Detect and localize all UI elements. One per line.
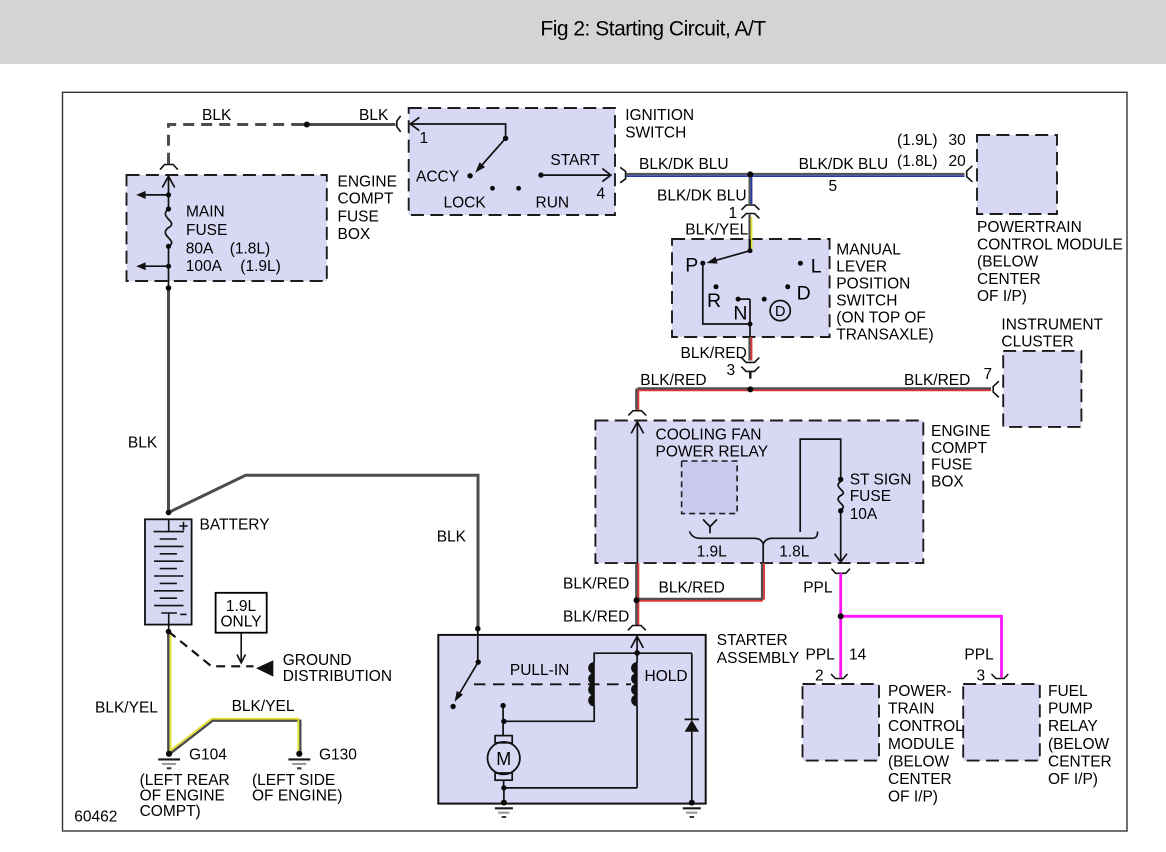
svg-text:100A: 100A <box>186 258 223 275</box>
svg-text:1: 1 <box>420 130 429 147</box>
svg-text:(BELOW: (BELOW <box>888 753 950 770</box>
svg-text:BLK/RED: BLK/RED <box>659 580 725 597</box>
svg-text:14: 14 <box>849 646 867 663</box>
svg-text:BLK/DK BLU: BLK/DK BLU <box>799 156 889 173</box>
svg-text:CENTER: CENTER <box>977 271 1041 288</box>
svg-text:ENGINE: ENGINE <box>338 173 397 190</box>
svg-text:CLUSTER: CLUSTER <box>1001 334 1073 351</box>
svg-text:Fig 2: Starting Circuit, A/T: Fig 2: Starting Circuit, A/T <box>540 18 766 41</box>
svg-text:PUMP: PUMP <box>1048 701 1093 718</box>
svg-text:BLK/RED: BLK/RED <box>640 372 706 389</box>
svg-text:ACCY: ACCY <box>416 168 459 185</box>
svg-text:HOLD: HOLD <box>645 668 688 685</box>
svg-text:D: D <box>797 283 811 305</box>
svg-text:ENGINE: ENGINE <box>931 423 990 440</box>
svg-text:(BELOW: (BELOW <box>1048 736 1110 753</box>
svg-text:BLK/YEL: BLK/YEL <box>685 222 748 239</box>
svg-text:3: 3 <box>727 362 736 379</box>
svg-text:ST SIGN: ST SIGN <box>850 472 912 489</box>
svg-text:RELAY: RELAY <box>1048 718 1098 735</box>
svg-text:BOX: BOX <box>931 473 964 490</box>
svg-text:BOX: BOX <box>338 226 371 243</box>
svg-text:POWER RELAY: POWER RELAY <box>656 443 769 460</box>
svg-text:30: 30 <box>949 132 967 149</box>
svg-text:BLK: BLK <box>202 107 232 124</box>
svg-text:FUSE: FUSE <box>931 457 972 474</box>
svg-text:(1.9L): (1.9L) <box>240 258 280 275</box>
svg-text:(1.8L): (1.8L) <box>897 153 938 170</box>
svg-text:(1.8L): (1.8L) <box>230 241 271 258</box>
svg-text:COMPT: COMPT <box>338 191 395 208</box>
svg-text:PPL: PPL <box>803 580 833 597</box>
svg-text:LEVER: LEVER <box>836 259 887 276</box>
svg-text:DISTRIBUTION: DISTRIBUTION <box>283 668 392 685</box>
svg-text:OF I/P): OF I/P) <box>888 789 938 806</box>
svg-text:BLK: BLK <box>437 529 467 546</box>
svg-text:SWITCH: SWITCH <box>625 124 686 141</box>
svg-text:CENTER: CENTER <box>1048 753 1112 770</box>
svg-text:(BELOW: (BELOW <box>977 254 1039 271</box>
svg-text:20: 20 <box>949 153 967 170</box>
svg-text:BLK/YEL: BLK/YEL <box>232 698 295 715</box>
svg-text:BLK/RED: BLK/RED <box>904 372 970 389</box>
svg-text:MODULE: MODULE <box>888 736 954 753</box>
svg-text:FUSE: FUSE <box>850 488 891 505</box>
svg-text:10A: 10A <box>850 506 878 523</box>
svg-text:BLK/DK BLU: BLK/DK BLU <box>639 156 729 173</box>
svg-text:R: R <box>707 290 721 312</box>
svg-text:N: N <box>733 302 747 324</box>
svg-text:2: 2 <box>815 667 824 684</box>
svg-text:IGNITION: IGNITION <box>625 107 694 124</box>
svg-text:BLK: BLK <box>359 107 389 124</box>
svg-text:BATTERY: BATTERY <box>200 517 270 534</box>
svg-text:TRANSAXLE): TRANSAXLE) <box>836 327 933 344</box>
svg-text:3: 3 <box>977 667 986 684</box>
svg-text:PPL: PPL <box>806 646 836 663</box>
svg-text:P: P <box>685 254 698 276</box>
svg-text:LOCK: LOCK <box>444 194 487 211</box>
svg-text:1.9L: 1.9L <box>226 598 257 615</box>
svg-text:MANUAL: MANUAL <box>836 242 901 259</box>
svg-text:BLK/RED: BLK/RED <box>563 609 629 626</box>
svg-text:STARTER: STARTER <box>717 632 788 649</box>
svg-text:ONLY: ONLY <box>220 613 261 630</box>
svg-text:BLK/RED: BLK/RED <box>563 575 629 592</box>
svg-text:OF ENGINE: OF ENGINE <box>140 787 225 804</box>
svg-text:BLK/YEL: BLK/YEL <box>95 700 158 717</box>
svg-text:5: 5 <box>829 178 838 195</box>
svg-text:G130: G130 <box>319 747 357 764</box>
svg-text:FUSE: FUSE <box>338 208 379 225</box>
svg-text:OF I/P): OF I/P) <box>977 288 1027 305</box>
svg-text:RUN: RUN <box>536 194 570 211</box>
svg-text:80A: 80A <box>186 241 214 258</box>
svg-text:D: D <box>775 304 785 320</box>
svg-text:START: START <box>550 152 600 169</box>
svg-text:7: 7 <box>984 366 993 383</box>
svg-text:L: L <box>811 255 822 277</box>
svg-text:INSTRUMENT: INSTRUMENT <box>1001 317 1103 334</box>
svg-text:ASSEMBLY: ASSEMBLY <box>717 650 799 667</box>
svg-text:M: M <box>496 749 511 769</box>
svg-text:OF I/P): OF I/P) <box>1048 771 1098 788</box>
svg-text:SWITCH: SWITCH <box>836 293 897 310</box>
svg-text:G104: G104 <box>189 747 227 764</box>
svg-text:60462: 60462 <box>74 808 117 825</box>
svg-text:BLK/DK BLU: BLK/DK BLU <box>657 188 747 205</box>
svg-text:1.9L: 1.9L <box>697 544 728 561</box>
svg-text:GROUND: GROUND <box>283 652 352 669</box>
svg-text:4: 4 <box>597 186 606 203</box>
svg-text:CONTROL: CONTROL <box>888 718 964 735</box>
svg-text:FUSE: FUSE <box>186 222 227 239</box>
svg-text:(1.9L): (1.9L) <box>897 132 938 149</box>
svg-text:1.8L: 1.8L <box>779 544 810 561</box>
svg-text:TRAIN: TRAIN <box>888 701 935 718</box>
svg-text:COMPT: COMPT <box>931 440 988 457</box>
svg-text:(LEFT REAR: (LEFT REAR <box>140 772 230 789</box>
svg-text:1: 1 <box>729 205 738 222</box>
svg-text:PULL-IN: PULL-IN <box>510 662 569 679</box>
svg-text:BLK: BLK <box>128 435 158 452</box>
svg-text:COOLING FAN: COOLING FAN <box>656 426 762 443</box>
svg-text:PPL: PPL <box>964 646 994 663</box>
svg-text:BLK/RED: BLK/RED <box>681 345 747 362</box>
svg-text:(ON TOP OF: (ON TOP OF <box>836 310 926 327</box>
svg-text:POWERTRAIN: POWERTRAIN <box>977 219 1082 236</box>
svg-text:CENTER: CENTER <box>888 771 952 788</box>
svg-text:POSITION: POSITION <box>836 276 910 293</box>
svg-text:OF ENGINE): OF ENGINE) <box>252 787 342 804</box>
svg-text:(LEFT SIDE: (LEFT SIDE <box>252 772 335 789</box>
svg-text:POWER-: POWER- <box>888 683 952 700</box>
svg-text:FUEL: FUEL <box>1048 683 1088 700</box>
svg-text:MAIN: MAIN <box>186 203 225 220</box>
svg-text:COMPT): COMPT) <box>140 803 201 820</box>
svg-text:CONTROL MODULE: CONTROL MODULE <box>977 236 1123 253</box>
